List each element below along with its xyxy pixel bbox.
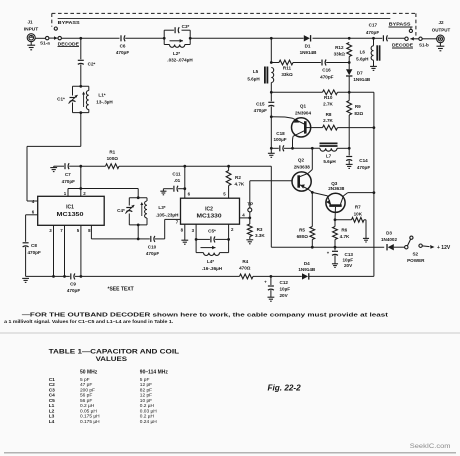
svg-text:470pF: 470pF bbox=[62, 179, 75, 184]
wire J1 to S1-a bbox=[35, 37, 45, 39]
svg-text:0.03 µH: 0.03 µH bbox=[140, 408, 157, 414]
inductor L7 bbox=[320, 143, 338, 164]
label DECODE (right) bbox=[392, 43, 414, 49]
node C12 top bbox=[270, 275, 273, 278]
label +12V bbox=[437, 245, 451, 251]
svg-text:0.2 µH: 0.2 µH bbox=[140, 414, 155, 420]
ground at C14 bbox=[346, 164, 353, 168]
svg-text:TP: TP bbox=[247, 201, 253, 206]
svg-text:2N3638: 2N3638 bbox=[328, 186, 345, 191]
svg-text:+ 12V: + 12V bbox=[437, 245, 451, 251]
svg-text:10K: 10K bbox=[354, 211, 363, 216]
svg-text:L4*: L4* bbox=[207, 259, 214, 264]
svg-text:C16: C16 bbox=[322, 68, 331, 73]
svg-text:C3: C3 bbox=[49, 387, 55, 393]
label see text bbox=[108, 287, 134, 293]
wire C18 node to L7 bbox=[293, 147, 321, 150]
svg-text:470pF: 470pF bbox=[366, 30, 379, 35]
svg-text:2.7K: 2.7K bbox=[323, 118, 333, 123]
capacitor C4* bbox=[117, 205, 134, 214]
svg-text:R7: R7 bbox=[355, 205, 361, 210]
svg-text:5 pF: 5 pF bbox=[80, 377, 90, 383]
wire node to C4 tank bbox=[81, 189, 138, 198]
wire down to C18 node bbox=[270, 117, 273, 150]
svg-text:100µF: 100µF bbox=[273, 137, 286, 142]
wire C6 to tank L2 bbox=[125, 37, 164, 39]
svg-text:470pF: 470pF bbox=[254, 108, 267, 113]
wire R8 node vertical bbox=[373, 92, 376, 276]
table 1 bbox=[49, 348, 180, 424]
svg-text:IC1: IC1 bbox=[66, 205, 74, 211]
resistor R3 bbox=[247, 218, 265, 239]
svg-text:Q2: Q2 bbox=[298, 158, 305, 163]
pin 3 stub bbox=[192, 224, 197, 239]
tank C4*/L3* box bbox=[129, 196, 147, 226]
svg-text:0.05 µH: 0.05 µH bbox=[80, 408, 97, 414]
wire node B down bbox=[79, 166, 82, 190]
svg-text:MC1330: MC1330 bbox=[197, 214, 222, 220]
tank L2*/C3* box bbox=[163, 30, 192, 44]
resistor R8 bbox=[307, 112, 374, 130]
svg-text:50 MHz: 50 MHz bbox=[80, 370, 98, 376]
svg-text:470pF: 470pF bbox=[320, 75, 333, 80]
svg-text:L7: L7 bbox=[326, 153, 332, 158]
node Q1 emitter line bbox=[270, 115, 273, 118]
svg-text:56 pF: 56 pF bbox=[80, 398, 92, 404]
wire Q2 collector bbox=[308, 148, 312, 173]
capacitor C15 bbox=[254, 92, 275, 117]
ground at J2 bbox=[436, 43, 444, 51]
ground at C11 bbox=[160, 189, 166, 195]
svg-text:C7: C7 bbox=[65, 172, 71, 177]
svg-text:R2: R2 bbox=[235, 175, 241, 180]
svg-text:680Ω: 680Ω bbox=[297, 234, 309, 239]
ground bus left ground bbox=[22, 278, 29, 282]
capacitor C17 bbox=[366, 23, 405, 42]
svg-text:4.7K: 4.7K bbox=[340, 234, 350, 239]
bypass wire bbox=[58, 17, 391, 19]
resistor R5 bbox=[297, 192, 315, 247]
svg-text:C9: C9 bbox=[70, 282, 76, 287]
svg-text:10µF: 10µF bbox=[343, 258, 354, 263]
svg-text:C12: C12 bbox=[280, 280, 289, 285]
inductor L1* bbox=[82, 91, 113, 110]
inductor L4* bbox=[196, 239, 229, 270]
svg-text:C8: C8 bbox=[31, 243, 37, 248]
svg-text:0.175 µH: 0.175 µH bbox=[80, 419, 100, 425]
capacitor C2* bbox=[78, 38, 96, 86]
wire S1-b to J2 bbox=[422, 38, 436, 40]
bypass contact (left) bbox=[54, 27, 57, 30]
capacitor C3* bbox=[175, 24, 189, 33]
ground below C18 node bbox=[268, 148, 275, 157]
svg-text:3.3K: 3.3K bbox=[255, 233, 265, 238]
svg-text:R6: R6 bbox=[341, 228, 347, 233]
ground at R7 bbox=[363, 238, 369, 242]
svg-text:L5: L5 bbox=[253, 69, 259, 74]
label DECODE (left) bbox=[58, 41, 80, 47]
svg-text:Fig. 22-2: Fig. 22-2 bbox=[268, 383, 302, 392]
svg-text:33kΩ: 33kΩ bbox=[281, 72, 293, 77]
svg-text:2.7K: 2.7K bbox=[323, 102, 333, 107]
svg-text:POWER: POWER bbox=[407, 258, 425, 263]
resistor R9 bbox=[347, 92, 364, 148]
node L5 top bbox=[270, 38, 273, 64]
ground at C7 bbox=[50, 166, 57, 171]
svg-text:R4: R4 bbox=[242, 259, 248, 264]
pin 7 stub bbox=[60, 225, 64, 276]
capacitor C13 bbox=[327, 247, 354, 268]
svg-text:C13: C13 bbox=[345, 252, 354, 257]
svg-text:R1: R1 bbox=[109, 150, 115, 155]
svg-text:470pF: 470pF bbox=[357, 165, 370, 170]
resistor R11 bbox=[271, 60, 321, 77]
svg-text:L3*: L3* bbox=[158, 205, 165, 210]
svg-text:56 pF: 56 pF bbox=[80, 393, 92, 399]
node C junction bbox=[137, 238, 140, 241]
svg-text:5.6µH: 5.6µH bbox=[356, 56, 369, 61]
svg-text:S1-a: S1-a bbox=[40, 41, 50, 46]
switch S1-a bbox=[40, 36, 61, 45]
ground at C12 bbox=[268, 297, 275, 301]
svg-text:C5: C5 bbox=[49, 398, 55, 404]
wire D1 to R12 node bbox=[313, 37, 351, 40]
diode D1 bbox=[271, 35, 317, 55]
svg-text:R11: R11 bbox=[283, 66, 292, 71]
inductor L2* bbox=[167, 39, 193, 63]
svg-text:5.6µH: 5.6µH bbox=[323, 159, 336, 164]
svg-text:S1-b: S1-b bbox=[419, 43, 429, 48]
watermark bbox=[410, 444, 451, 450]
switch S2 bbox=[405, 236, 435, 263]
switch S1-b bbox=[405, 37, 429, 48]
svg-text:90–114 MHz: 90–114 MHz bbox=[140, 370, 169, 376]
supply wire corner bbox=[229, 166, 272, 247]
wire C10 to pin 7 bbox=[165, 219, 181, 239]
svg-text:C2: C2 bbox=[49, 382, 55, 388]
svg-text:TABLE 1—CAPACITOR AND COIL: TABLE 1—CAPACITOR AND COIL bbox=[49, 348, 180, 355]
transistor Q1 bbox=[292, 104, 312, 137]
pin 5 stub bbox=[75, 225, 196, 277]
svg-text:R10: R10 bbox=[324, 95, 333, 100]
svg-text:D4: D4 bbox=[304, 261, 310, 266]
wire Q1 emitter bbox=[271, 117, 292, 119]
svg-text:L1*: L1* bbox=[98, 93, 105, 98]
svg-text:C6: C6 bbox=[120, 43, 126, 48]
resistor R6 bbox=[333, 220, 350, 247]
svg-text:470pF: 470pF bbox=[116, 50, 129, 55]
svg-text:Q1: Q1 bbox=[300, 104, 307, 109]
capacitor C12 bbox=[264, 276, 290, 298]
svg-text:20V: 20V bbox=[344, 263, 353, 268]
tank C1*/L1* box bbox=[73, 85, 89, 114]
svg-text:.105-.23µH: .105-.23µH bbox=[156, 213, 180, 218]
pin 2 stub bbox=[81, 189, 86, 197]
svg-text:C4: C4 bbox=[49, 393, 55, 399]
capacitor C6 bbox=[116, 35, 129, 55]
label BYPASS (right) bbox=[389, 21, 413, 27]
svg-text:1N4002: 1N4002 bbox=[381, 237, 398, 242]
svg-text:L2: L2 bbox=[49, 408, 55, 414]
wire tank bottom to bus bbox=[137, 225, 139, 239]
svg-text:MC1350: MC1350 bbox=[57, 212, 84, 218]
wire node to pin1 bbox=[68, 189, 81, 197]
wire Q3 base bbox=[334, 207, 337, 221]
svg-text:L3: L3 bbox=[49, 414, 55, 420]
svg-text:C2*: C2* bbox=[88, 62, 96, 67]
svg-text:0.24 µH: 0.24 µH bbox=[140, 419, 157, 425]
svg-text:L6: L6 bbox=[360, 49, 366, 54]
resistor R12 bbox=[334, 43, 352, 64]
svg-text:5 pF: 5 pF bbox=[140, 377, 150, 383]
wire Q3 emitter bbox=[312, 192, 327, 196]
wire tank to D1 bbox=[190, 37, 272, 40]
wire Q2 emitter bbox=[309, 190, 314, 194]
svg-text:470pF: 470pF bbox=[67, 288, 80, 293]
pin 2 stub bbox=[229, 224, 234, 239]
node A junction bbox=[79, 37, 82, 40]
inductor L5 bbox=[247, 67, 273, 84]
svg-text:D7: D7 bbox=[357, 71, 363, 76]
pin 1 label bbox=[64, 191, 67, 196]
svg-text:D1: D1 bbox=[305, 44, 311, 49]
svg-text:0.175 µH: 0.175 µH bbox=[80, 414, 100, 420]
svg-text:10 pF: 10 pF bbox=[140, 398, 152, 404]
svg-text:470pF: 470pF bbox=[146, 251, 159, 256]
power rail bbox=[271, 246, 384, 249]
bypass contact (right) bbox=[409, 27, 412, 33]
svg-text:4.7K: 4.7K bbox=[235, 181, 245, 186]
transistor Q2 bbox=[292, 158, 311, 191]
pin 8 ground bbox=[181, 224, 189, 244]
svg-text:R5: R5 bbox=[299, 227, 305, 232]
capacitor C11 bbox=[163, 172, 184, 192]
svg-text:2N3638: 2N3638 bbox=[294, 165, 311, 170]
svg-text:C4*: C4* bbox=[117, 208, 125, 213]
ground at L6 bbox=[370, 60, 377, 70]
diode D3 bbox=[381, 231, 405, 251]
svg-text:12 pF: 12 pF bbox=[140, 393, 152, 399]
svg-text:470pF: 470pF bbox=[28, 250, 41, 255]
ground at R3 bbox=[246, 240, 253, 244]
capacitor C8 bbox=[23, 215, 41, 277]
svg-text:.032-.074µH: .032-.074µH bbox=[167, 58, 193, 63]
dashed gang linkage bbox=[52, 13, 416, 36]
wire Q1 collector bbox=[291, 136, 294, 149]
wire S1-a to C6 bbox=[61, 37, 119, 39]
svg-text:C1*: C1* bbox=[57, 97, 65, 102]
wire TP to Q2 base bbox=[250, 181, 292, 208]
svg-text:C15: C15 bbox=[256, 101, 265, 106]
svg-text:10µF: 10µF bbox=[280, 286, 291, 291]
caption bbox=[4, 312, 388, 324]
svg-text:C3*: C3* bbox=[182, 24, 190, 29]
inductor L6 bbox=[356, 38, 379, 61]
ground bus bbox=[26, 275, 70, 278]
svg-text:C5*: C5* bbox=[208, 229, 216, 234]
capacitor C14 bbox=[346, 148, 370, 170]
svg-text:INPUT: INPUT bbox=[24, 26, 39, 31]
ground at J1 bbox=[27, 42, 35, 50]
wire to L6 node bbox=[349, 37, 375, 40]
svg-text:0.2 µH: 0.2 µH bbox=[140, 403, 155, 409]
svg-text:470Ω: 470Ω bbox=[239, 265, 251, 270]
inductor L3* bbox=[140, 201, 179, 218]
svg-text:13-.3µH: 13-.3µH bbox=[96, 99, 113, 104]
svg-text:1N914B: 1N914B bbox=[353, 77, 371, 82]
svg-text:J2: J2 bbox=[438, 20, 444, 25]
svg-text:OUTPUT: OUTPUT bbox=[432, 27, 451, 32]
svg-text:*SEE TEXT: *SEE TEXT bbox=[108, 287, 134, 293]
diode D4 bbox=[271, 261, 374, 280]
svg-text:47 pF: 47 pF bbox=[80, 382, 92, 388]
resistor R7 bbox=[335, 205, 366, 239]
svg-text:VALUES: VALUES bbox=[96, 356, 128, 363]
resistor R4 bbox=[196, 259, 271, 279]
op-amp IC2 bbox=[181, 198, 240, 224]
svg-text:L4: L4 bbox=[49, 419, 55, 425]
capacitor C7 bbox=[54, 163, 81, 184]
svg-text:C17: C17 bbox=[369, 23, 378, 28]
wire tank to IC1 pin 4 bbox=[27, 113, 81, 201]
svg-text:.01: .01 bbox=[174, 178, 181, 183]
capacitor C10 bbox=[138, 236, 165, 256]
svg-text:L1: L1 bbox=[49, 403, 55, 409]
svg-text:100Ω: 100Ω bbox=[107, 156, 119, 161]
svg-text:C18: C18 bbox=[276, 131, 285, 136]
svg-text:IC2: IC2 bbox=[205, 206, 213, 212]
svg-text:BYPASS: BYPASS bbox=[58, 20, 81, 26]
capacitor C18 bbox=[271, 131, 292, 151]
pin 6 stub bbox=[26, 209, 38, 214]
pin 8 wire bbox=[88, 225, 138, 239]
capacitor C5* bbox=[195, 229, 230, 243]
transistor Q3 bbox=[326, 181, 345, 212]
divider bbox=[0, 332, 460, 334]
svg-text:5.6µH: 5.6µH bbox=[247, 77, 260, 82]
svg-text:0.2 µH: 0.2 µH bbox=[80, 403, 95, 409]
svg-text:C11: C11 bbox=[172, 172, 181, 177]
svg-text:12 pF: 12 pF bbox=[140, 382, 152, 388]
svg-text:200 pF: 200 pF bbox=[80, 387, 95, 393]
node C14 top bbox=[348, 147, 351, 150]
svg-text:20V: 20V bbox=[280, 293, 289, 298]
svg-text:R8: R8 bbox=[326, 112, 332, 117]
pin 4 label bbox=[32, 199, 35, 204]
svg-text:SeekIC.com: SeekIC.com bbox=[410, 444, 451, 450]
connector J1 bbox=[24, 20, 39, 42]
wire L7 to C14 node bbox=[337, 147, 349, 149]
capacitor C16 bbox=[320, 60, 349, 80]
svg-text:D3: D3 bbox=[386, 231, 392, 236]
svg-text:R3: R3 bbox=[257, 227, 263, 232]
svg-text:C10: C10 bbox=[148, 244, 157, 249]
svg-text:C1: C1 bbox=[49, 377, 55, 383]
resistor R1 bbox=[81, 150, 185, 169]
op-amp IC1 bbox=[38, 196, 105, 225]
svg-text:S2: S2 bbox=[412, 252, 418, 257]
svg-text:33kΩ: 33kΩ bbox=[334, 51, 346, 56]
capacitor C1* bbox=[57, 95, 77, 104]
bottom rule bbox=[4, 452, 456, 454]
svg-text:82 pF: 82 pF bbox=[140, 387, 152, 393]
svg-text:1N914B: 1N914B bbox=[298, 267, 316, 272]
node R10 left bbox=[270, 83, 273, 94]
resistor R10 bbox=[271, 90, 374, 107]
svg-text:J1: J1 bbox=[27, 20, 33, 25]
svg-text:2N3904: 2N3904 bbox=[295, 110, 312, 115]
test point TP bbox=[247, 201, 253, 218]
svg-text:C14: C14 bbox=[359, 158, 368, 163]
wire R1 line to R2 node bbox=[183, 165, 230, 168]
diode D7 bbox=[346, 63, 371, 93]
svg-text:R9: R9 bbox=[355, 104, 361, 109]
node B junction bbox=[79, 165, 82, 168]
label BYPASS (left) bbox=[58, 20, 81, 26]
svg-text:1N914B: 1N914B bbox=[300, 50, 318, 55]
connector J2 bbox=[432, 20, 451, 43]
svg-text:—FOR THE OUTBAND DECODER shown: —FOR THE OUTBAND DECODER shown here to w… bbox=[22, 312, 389, 318]
capacitor C9 bbox=[67, 273, 80, 293]
pin 4 wire bbox=[240, 212, 252, 219]
resistor R2 bbox=[223, 166, 245, 198]
svg-text:.16-.36µH: .16-.36µH bbox=[202, 266, 223, 271]
svg-text:L2*: L2* bbox=[173, 51, 180, 56]
ground at C13 bbox=[332, 264, 338, 268]
svg-text:R12: R12 bbox=[335, 45, 344, 50]
svg-text:a 1 millivolt signal. Values f: a 1 millivolt signal. Values for C1–C5 a… bbox=[4, 319, 173, 324]
svg-text:BYPASS: BYPASS bbox=[389, 21, 412, 27]
svg-text:82Ω: 82Ω bbox=[354, 111, 363, 116]
pin 3 stub bbox=[49, 225, 53, 276]
wire Q3 collector bbox=[343, 191, 375, 196]
figure label bbox=[268, 383, 302, 392]
pin 6 wire IC2 bbox=[183, 166, 190, 198]
